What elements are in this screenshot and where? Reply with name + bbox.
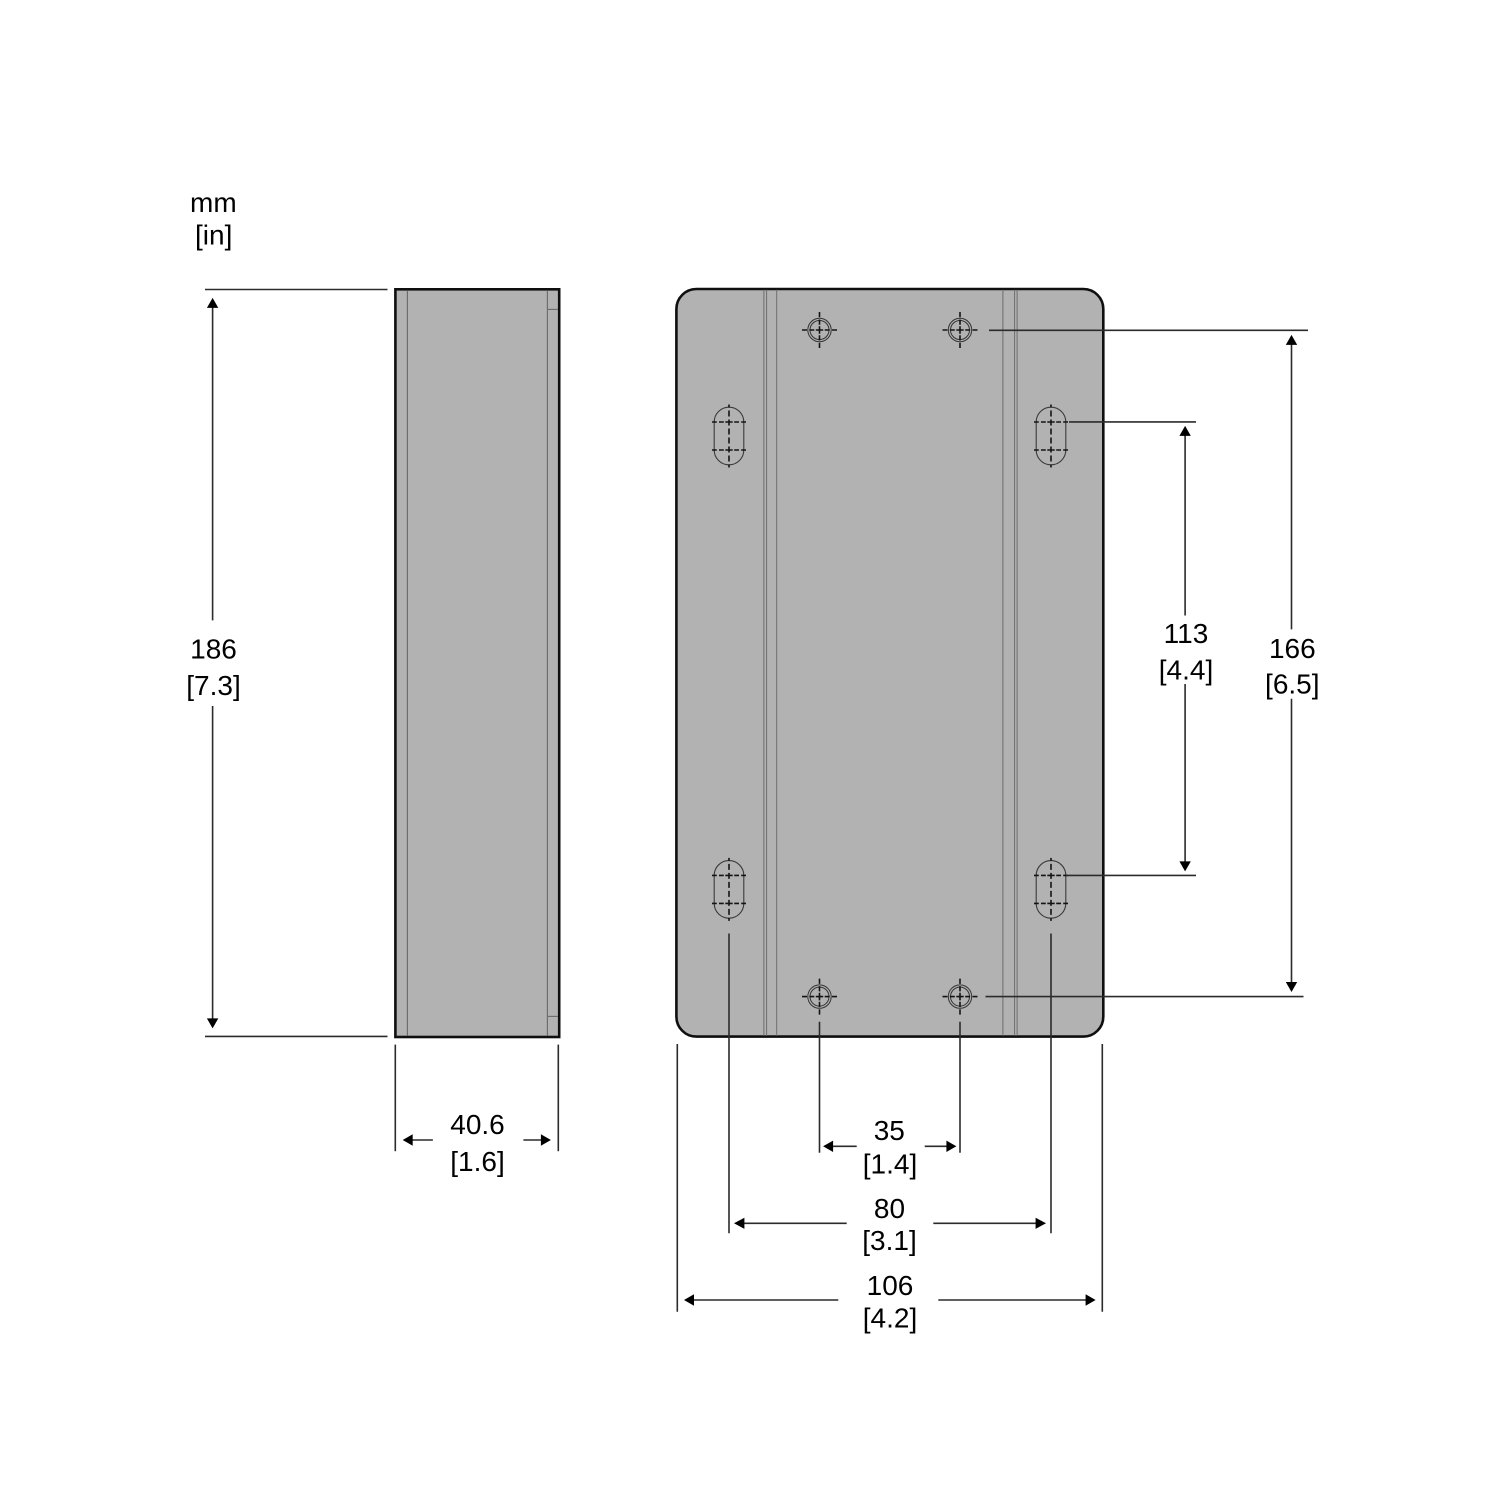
svg-text:[4.2]: [4.2] (863, 1302, 917, 1333)
dimension 186 [7.3] (205, 290, 388, 1037)
dimension 166 [6.5] (986, 330, 1309, 996)
svg-text:113: 113 (1164, 618, 1209, 649)
slot bottom-left (712, 858, 746, 921)
hole top-left (802, 312, 837, 348)
side view inner left fold line (406, 290, 408, 1035)
svg-text:106: 106 (867, 1270, 914, 1301)
hole bottom-right (943, 979, 978, 1015)
hole top-right (943, 312, 978, 348)
svg-text:mm: mm (190, 187, 237, 218)
left groove single line (776, 290, 778, 1036)
svg-text:[4.4]: [4.4] (1159, 655, 1213, 686)
svg-text:[3.1]: [3.1] (862, 1225, 916, 1256)
units label mm/in (190, 187, 237, 251)
slot bottom-right (1034, 858, 1068, 921)
side view top-right notch (548, 308, 558, 310)
front view body (676, 289, 1103, 1037)
slot top-right (1034, 405, 1068, 468)
right groove single line (1002, 290, 1004, 1036)
svg-text:[6.5]: [6.5] (1265, 669, 1319, 700)
side view bottom-right notch (548, 1015, 558, 1017)
side view inner right fold line (546, 290, 548, 1035)
svg-text:40.6: 40.6 (450, 1109, 505, 1140)
right groove double line (1014, 290, 1016, 1036)
dimension 40.6 [1.6] (395, 1045, 558, 1152)
svg-text:35: 35 (874, 1115, 905, 1146)
svg-text:[1.6]: [1.6] (450, 1146, 504, 1177)
hole bottom-left (802, 979, 837, 1015)
svg-text:186: 186 (190, 633, 237, 664)
side view body (395, 289, 559, 1037)
svg-text:[7.3]: [7.3] (186, 670, 240, 701)
svg-text:[in]: [in] (195, 220, 232, 251)
svg-text:[1.4]: [1.4] (863, 1149, 917, 1180)
dimension 80 [3.1] (729, 934, 1051, 1234)
dimension 113 [4.4] (1066, 422, 1196, 876)
slot top-left (712, 405, 746, 468)
dimension 35 [1.4] (820, 1022, 961, 1153)
left groove double line (763, 290, 765, 1036)
svg-text:166: 166 (1269, 633, 1316, 664)
svg-text:80: 80 (874, 1193, 905, 1224)
dimension 106 [4.2] (677, 1044, 1102, 1312)
